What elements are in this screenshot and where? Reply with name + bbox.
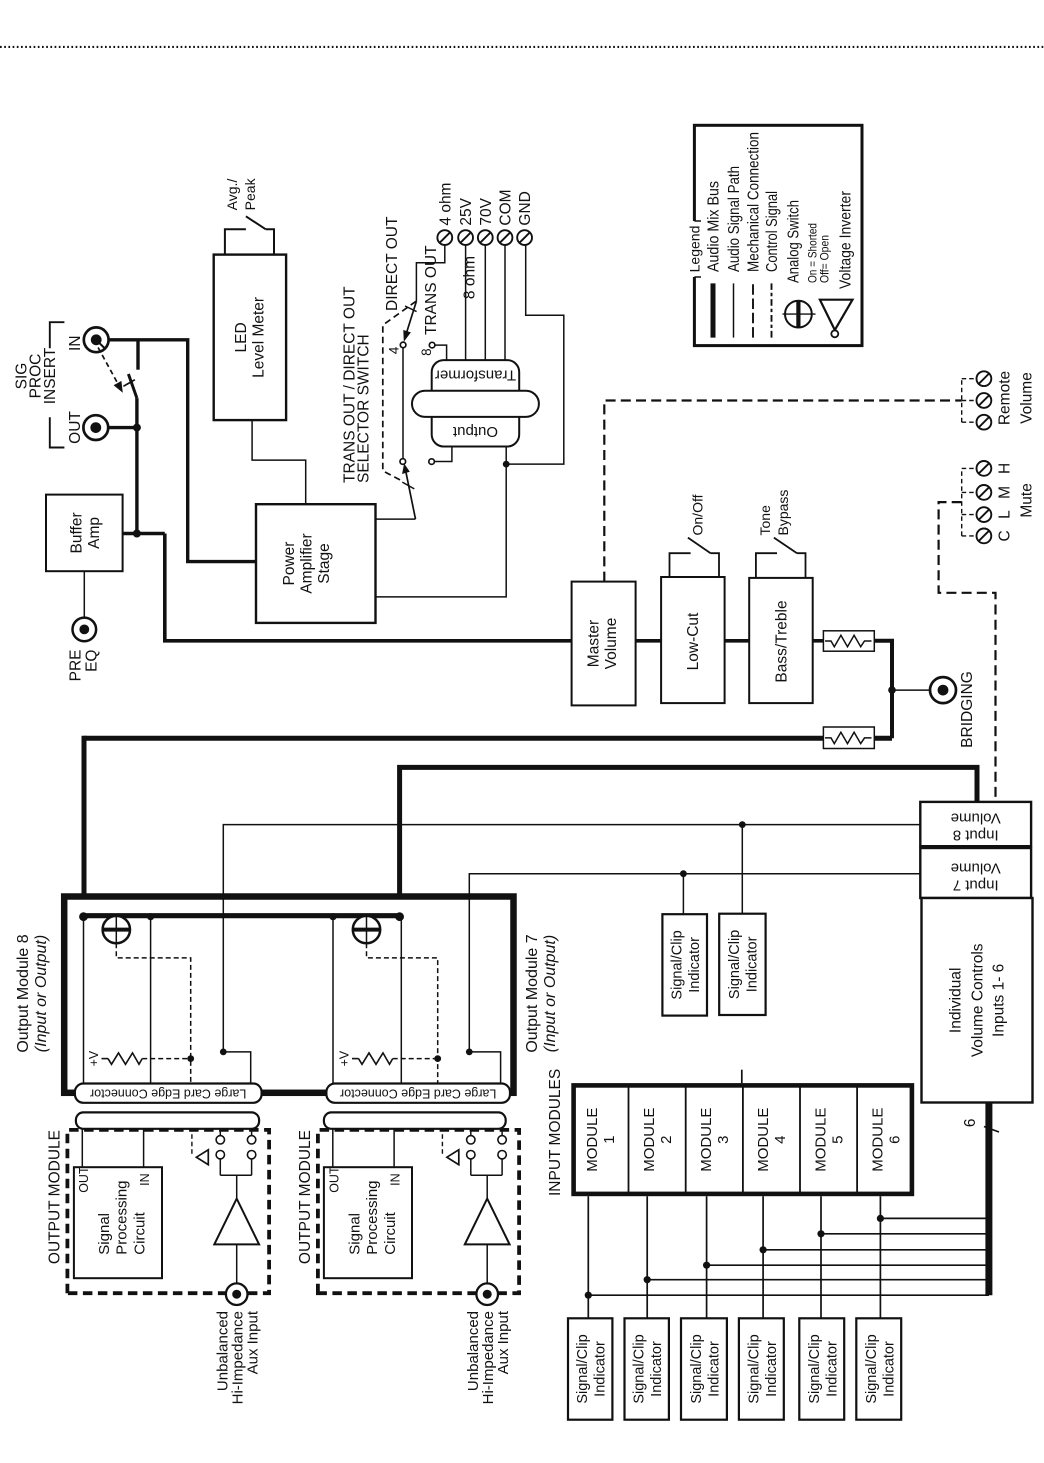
svg-text:Avg./: Avg./	[224, 179, 240, 211]
avg/peak switch arm	[246, 216, 266, 229]
wire amp to jumper bracket module 8	[236, 1175, 238, 1198]
dotted separator rule at top of page	[0, 46, 1044, 48]
wire 70V terminal	[484, 245, 486, 360]
svg-text:Low-Cut: Low-Cut	[685, 612, 702, 670]
svg-text:Signal/Clip: Signal/Clip	[727, 930, 743, 999]
svg-text:Indicator: Indicator	[824, 1341, 840, 1397]
terminal mute C	[977, 529, 992, 544]
legend sample audio signal path	[733, 283, 735, 337]
svg-text:Remote: Remote	[997, 371, 1014, 425]
svg-text:Tone: Tone	[757, 505, 773, 536]
terminal 4 ohm	[437, 230, 452, 245]
wire chain R1 to corner	[871, 641, 892, 738]
svg-text:Input 8: Input 8	[953, 827, 999, 844]
svg-text:Transformer: Transformer	[435, 366, 516, 383]
svg-text:C: C	[997, 530, 1014, 541]
svg-text:Master: Master	[586, 620, 603, 667]
node branch 2	[644, 1276, 651, 1283]
svg-text:Individual: Individual	[948, 968, 965, 1034]
signal processing circuit box module 8	[74, 1167, 162, 1278]
wire module 3 output	[706, 1196, 708, 1318]
wire ground return to GND terminal	[506, 245, 564, 464]
wire SPC IN to connector (module 8)	[143, 1129, 145, 1167]
svg-text:SELECTOR SWITCH: SELECTOR SWITCH	[356, 334, 373, 483]
wire module 8 line A	[83, 916, 85, 1084]
wire module 4 output	[762, 1196, 764, 1318]
signal/clip indicator box 1	[568, 1318, 612, 1419]
wire branch input 6	[880, 1217, 989, 1219]
control dashed master volume remote	[604, 401, 961, 582]
tone bypass switch leads	[756, 553, 777, 578]
wire branch input 3	[707, 1264, 989, 1266]
svg-text:GND: GND	[517, 191, 534, 225]
node bridging tap	[888, 686, 896, 694]
terminal mute H	[977, 461, 992, 476]
svg-text:Power: Power	[281, 542, 298, 586]
terminal remote volume M	[977, 393, 992, 408]
wire indicator 7 tap	[682, 874, 684, 915]
svg-text:Volume Controls: Volume Controls	[970, 943, 987, 1057]
svg-text:4: 4	[387, 346, 402, 354]
svg-text:TRANS OUT: TRANS OUT	[423, 245, 440, 335]
svg-text:Indicator: Indicator	[707, 1341, 723, 1397]
signal/clip indicator box input 7	[662, 914, 707, 1015]
terminal 70V	[478, 230, 493, 245]
tick across selector arm 4 ohm side	[405, 306, 417, 312]
svg-text:25V: 25V	[458, 197, 475, 225]
wire SPC OUT to connector (module 7)	[332, 1129, 334, 1167]
resistor R2 (summing)	[823, 727, 874, 749]
inverter dashed lead module 7	[441, 1129, 443, 1154]
svg-text:Buffer: Buffer	[69, 512, 86, 553]
individual volume controls box	[922, 898, 1033, 1103]
node branch 4	[760, 1246, 767, 1253]
voltage inverter module 7	[447, 1150, 459, 1165]
low-cut on/off switch leads	[670, 553, 691, 577]
contact selector upper-left	[400, 459, 406, 465]
wire internal mix bus	[82, 913, 401, 918]
svg-text:70V: 70V	[478, 197, 495, 225]
wire PRE EQ jack to buffer	[83, 571, 85, 617]
voltage inverter module 8	[196, 1150, 208, 1165]
wire module 8 input feed	[223, 825, 920, 1084]
terminal COM	[498, 230, 513, 245]
svg-text:Indicator: Indicator	[881, 1341, 897, 1397]
svg-text:Level Meter: Level Meter	[251, 297, 268, 378]
svg-text:Amplifier: Amplifier	[299, 533, 316, 593]
svg-text:4 ohm: 4 ohm	[437, 183, 454, 226]
svg-text:MODULE: MODULE	[641, 1108, 658, 1172]
selector arm (4 ohm side)	[405, 301, 416, 337]
svg-text:Output Module 7: Output Module 7	[524, 934, 541, 1052]
legend analog switch symbol	[783, 301, 816, 328]
terminal 25V	[458, 230, 473, 245]
contact selector trans-out	[429, 342, 435, 348]
node module 7 line A junction	[329, 913, 336, 920]
node module 8 feed corner	[220, 1049, 227, 1056]
svg-text:MODULE: MODULE	[584, 1108, 601, 1172]
buffer amp box	[46, 495, 123, 572]
wire module 7 input feed	[469, 874, 920, 1084]
svg-text:5: 5	[829, 1136, 846, 1144]
svg-text:IN: IN	[67, 335, 84, 351]
svg-text:OUTPUT MODULE: OUTPUT MODULE	[46, 1130, 63, 1264]
avg/peak switch leads	[225, 229, 246, 254]
insert switch arm	[128, 374, 137, 398]
svg-text:Processing: Processing	[364, 1180, 381, 1254]
svg-text:Large Card Edge Connector: Large Card Edge Connector	[340, 1087, 496, 1101]
terminal GND	[517, 230, 532, 245]
signal/clip indicator box input 8	[719, 914, 765, 1015]
arrowhead selector arm 4 ohm side	[403, 330, 411, 342]
svg-text:H: H	[997, 463, 1014, 474]
legend voltage inverter symbol	[820, 300, 853, 338]
svg-text:Input 7: Input 7	[953, 877, 999, 894]
wire module 6 output	[879, 1196, 881, 1318]
wire branch input 4	[763, 1249, 989, 1251]
LED level meter box	[214, 255, 286, 421]
svg-text:IN: IN	[138, 1173, 152, 1186]
node module 7 control junction	[434, 1055, 441, 1062]
svg-text:Mute: Mute	[1019, 483, 1036, 517]
wire to bridging jack	[892, 689, 930, 691]
wire amp to jumper bracket module 7	[486, 1175, 488, 1198]
svg-text:+V: +V	[87, 1050, 101, 1066]
selector switch dashed outline	[383, 300, 418, 480]
svg-text:INPUT MODULES: INPUT MODULES	[547, 1069, 564, 1196]
arrowhead of mechanical link	[114, 381, 123, 393]
svg-text:Bypass: Bypass	[775, 490, 791, 536]
node module 7 bus junction	[395, 912, 404, 921]
svg-text:Stage: Stage	[316, 543, 333, 584]
card edge connector module 7	[326, 1084, 510, 1103]
svg-text:Inputs 1- 6: Inputs 1- 6	[991, 964, 1008, 1037]
wire lower-left contact to transformer	[435, 447, 452, 462]
wire 25V terminal	[465, 245, 467, 360]
svg-text:Control Signal: Control Signal	[764, 191, 781, 272]
legend title ticks	[694, 276, 701, 278]
svg-text:OUT: OUT	[327, 1166, 341, 1193]
node module 8 bus junction	[79, 912, 88, 921]
svg-text:Signal/Clip: Signal/Clip	[689, 1334, 705, 1403]
svg-text:INSERT: INSERT	[42, 347, 59, 404]
svg-text:Volume: Volume	[603, 618, 620, 670]
svg-text:MODULE: MODULE	[812, 1108, 829, 1172]
module 7 card connector bar	[324, 1112, 506, 1128]
node input 7 indicator tap	[680, 870, 687, 877]
svg-text:Circuit: Circuit	[382, 1211, 399, 1254]
svg-text:DIRECT OUT: DIRECT OUT	[384, 216, 401, 311]
jack BRIDGING	[930, 677, 956, 703]
svg-text:4: 4	[772, 1136, 789, 1144]
wire module 2 output	[646, 1196, 648, 1318]
input modules box (thick)	[574, 1085, 912, 1194]
jack aux input module 8	[226, 1283, 248, 1305]
node module 7 feed corner	[466, 1049, 473, 1056]
svg-text:Audio Signal Path: Audio Signal Path	[726, 166, 743, 272]
wire mix bus (main vertical)	[871, 736, 892, 741]
svg-text:Bass/Treble: Bass/Treble	[774, 600, 791, 682]
svg-text:OUTPUT MODULE: OUTPUT MODULE	[297, 1130, 314, 1264]
terminal remote volume H	[977, 371, 992, 386]
bracket tick (IN side)	[50, 322, 65, 348]
svg-text:Off= Open: Off= Open	[818, 235, 832, 283]
contact selector lower-left	[429, 459, 435, 465]
wire IN jack to bus corner	[109, 340, 256, 562]
node branch 5	[817, 1230, 824, 1237]
signal/clip indicator box 3	[681, 1318, 727, 1419]
svg-text:Volume: Volume	[1019, 372, 1036, 424]
node OUT junction	[133, 424, 141, 432]
svg-text:MODULE: MODULE	[698, 1108, 715, 1172]
power amplifier stage box	[256, 504, 376, 623]
tone bypass switch arm	[774, 538, 797, 554]
control dashed module 8 switch	[116, 943, 190, 1083]
jumper pins module 8	[216, 1129, 256, 1176]
svg-text:Audio Mix Bus: Audio Mix Bus	[706, 181, 723, 272]
wire chain bass/treble to resistor R1	[813, 639, 827, 643]
svg-text:Large Card Edge Connector: Large Card Edge Connector	[90, 1087, 246, 1101]
resistor R1 (summing)	[823, 631, 874, 651]
tick across insert switch arm	[123, 380, 134, 387]
node branch 6	[877, 1215, 884, 1222]
svg-text:Indicator: Indicator	[649, 1341, 665, 1397]
wire OUT jack to switch	[108, 426, 137, 429]
svg-text:8 ohm: 8 ohm	[461, 256, 478, 299]
svg-text:6: 6	[962, 1118, 979, 1127]
wire chain master volume to low-cut	[636, 639, 662, 643]
node branch 1	[585, 1292, 592, 1299]
inverter dashed lead module 8	[191, 1129, 193, 1154]
svg-text:Peak: Peak	[242, 177, 258, 210]
amplifier module 7	[465, 1199, 510, 1245]
wire LED meter to power amp	[252, 420, 306, 504]
wire branch input 2	[647, 1279, 989, 1281]
wire module 7 line A	[332, 916, 334, 1084]
svg-text:Signal/Clip: Signal/Clip	[669, 930, 685, 999]
svg-text:Circuit: Circuit	[132, 1211, 149, 1254]
signal/clip indicator box 5	[799, 1318, 844, 1419]
control dashed module 7 switch	[367, 943, 438, 1083]
wire DIRECT OUT from 4 ohm terminal	[416, 245, 444, 301]
svg-text:6: 6	[887, 1136, 904, 1144]
wire module 7 line B	[400, 916, 402, 1084]
terminal mute M	[977, 485, 992, 500]
wire aux jack to amp module 8	[236, 1244, 238, 1283]
svg-text:3: 3	[715, 1136, 732, 1144]
wire branch input 5	[821, 1233, 989, 1235]
svg-text:Aux Input: Aux Input	[245, 1310, 262, 1374]
low-cut on/off switch arm	[688, 538, 711, 554]
svg-text:IN: IN	[389, 1173, 403, 1186]
wire mix bus 2 (modules 7/8 output)	[400, 767, 977, 918]
wire to master volume chain	[165, 534, 572, 641]
node input 8 indicator tap	[739, 821, 746, 828]
label SIG PROC INSERT	[13, 347, 58, 404]
wire direct-out selector link	[402, 348, 404, 459]
legend box	[694, 125, 862, 345]
low-cut box	[661, 577, 725, 703]
mute dashed bracket	[962, 468, 977, 536]
svg-text:Voltage Inverter: Voltage Inverter	[837, 191, 854, 289]
svg-text:Signal/Clip: Signal/Clip	[632, 1334, 648, 1403]
svg-text:1: 1	[601, 1136, 618, 1144]
svg-text:Processing: Processing	[114, 1180, 131, 1254]
wire aux jack to amp module 7	[486, 1244, 488, 1283]
jumper pins module 7	[467, 1129, 507, 1176]
tick 6-channel slash	[984, 1127, 999, 1133]
wire trans-out contact to transformer	[435, 345, 447, 360]
input 8 volume box	[920, 802, 1031, 846]
svg-text:(Input or Output): (Input or Output)	[33, 935, 50, 1052]
svg-text:PRE: PRE	[68, 650, 85, 682]
wire OUT run to buffer branch	[135, 398, 138, 533]
jack IN	[84, 327, 109, 352]
tick across selector arm power side	[402, 482, 414, 489]
control dashed mute path	[939, 502, 996, 798]
output module 8 card dashed box	[67, 1130, 269, 1293]
svg-text:Volume: Volume	[951, 860, 1001, 877]
output transformer core bar	[412, 391, 539, 417]
analog switch module 7	[353, 916, 380, 944]
node module 8 line B junction	[147, 913, 154, 920]
svg-text:Signal: Signal	[347, 1213, 364, 1255]
svg-text:Indicator: Indicator	[745, 936, 761, 992]
svg-text:COM: COM	[498, 189, 515, 225]
svg-text:L: L	[997, 510, 1014, 519]
resistor module 8 pull-up	[102, 1053, 191, 1064]
signal processing circuit box module 7	[324, 1167, 412, 1278]
terminal mute L	[977, 507, 992, 522]
wire mix bus top run to module 8	[82, 736, 87, 919]
legend sample control signal	[771, 283, 773, 337]
arrowhead selector arm power side	[402, 464, 410, 475]
bracket tick (OUT side)	[50, 417, 65, 447]
svg-text:+V: +V	[338, 1050, 352, 1066]
svg-text:Signal/Clip: Signal/Clip	[807, 1334, 823, 1403]
module 8 card connector bar	[76, 1112, 259, 1128]
svg-text:On/Off: On/Off	[690, 494, 706, 535]
module dividers	[629, 1085, 858, 1194]
wire module 8 line B	[150, 916, 152, 1084]
node output2/ground junction	[503, 461, 510, 468]
svg-text:Aux Input: Aux Input	[495, 1310, 512, 1374]
svg-text:(Input or Output): (Input or Output)	[542, 935, 559, 1052]
wire power amp output 2	[376, 447, 507, 597]
output modules housing box (thick)	[64, 897, 513, 1093]
wire branch input 1	[588, 1294, 989, 1296]
legend sample mechanical connection	[752, 283, 754, 337]
insert switch mechanical dashed link	[98, 348, 120, 388]
output module 7 card dashed box	[318, 1130, 519, 1293]
svg-text:Signal/Clip: Signal/Clip	[746, 1334, 762, 1403]
terminal remote volume L	[977, 415, 992, 430]
svg-text:Legend: Legend	[686, 226, 702, 273]
selector arm (power side)	[405, 466, 416, 520]
wire SPC IN to connector (module 7)	[393, 1129, 395, 1167]
legend sample audio mix bus	[711, 283, 716, 337]
wire buffer amp link	[123, 532, 165, 535]
node branch 3	[703, 1262, 710, 1269]
svg-text:Analog Switch: Analog Switch	[786, 200, 803, 283]
signal/clip indicator box 6	[856, 1318, 901, 1419]
bass/treble box	[749, 578, 813, 703]
wire chain low-cut to bass/treble	[725, 639, 750, 643]
input 7 volume box	[920, 848, 1031, 898]
svg-text:Signal/Clip: Signal/Clip	[575, 1334, 591, 1403]
svg-text:Amp: Amp	[86, 517, 103, 549]
jack OUT	[83, 415, 108, 440]
jack aux input module 7	[476, 1283, 498, 1305]
svg-text:Output Module 8: Output Module 8	[15, 934, 32, 1052]
wire stub module divider to indicator 8	[741, 1070, 743, 1084]
wire input bus (thick)	[985, 1103, 992, 1296]
node module 8 control junction	[187, 1055, 194, 1062]
wire module 1 output	[587, 1196, 589, 1318]
wire insert switch stub (IN side)	[136, 340, 139, 370]
wire SPC OUT to connector (module 8)	[81, 1129, 83, 1167]
remote volume dashed bracket	[962, 378, 977, 422]
resistor module 7 pull-up	[352, 1053, 438, 1064]
master volume box	[572, 582, 636, 706]
analog switch module 8	[103, 916, 130, 944]
svg-text:M: M	[997, 486, 1014, 499]
node buffer junction	[133, 530, 141, 538]
svg-text:8: 8	[419, 348, 434, 356]
signal/clip indicator box 2	[625, 1318, 669, 1419]
svg-text:Output: Output	[452, 423, 498, 440]
jack PRE EQ	[73, 618, 97, 642]
wire module 5 output	[820, 1196, 822, 1318]
svg-text:BRIDGING: BRIDGING	[959, 671, 976, 748]
wire COM terminal	[504, 245, 506, 360]
wire indicator 8 tap	[741, 825, 743, 914]
svg-text:Indicator: Indicator	[764, 1341, 780, 1397]
output transformer body	[432, 360, 520, 446]
signal/clip indicator box 4	[739, 1318, 784, 1419]
svg-text:EQ: EQ	[84, 650, 101, 672]
svg-text:Signal: Signal	[96, 1213, 113, 1255]
svg-text:Volume: Volume	[951, 810, 1001, 827]
svg-text:Mechanical Connection: Mechanical Connection	[746, 132, 763, 272]
svg-text:2: 2	[658, 1136, 675, 1144]
svg-text:OUT: OUT	[77, 1166, 91, 1193]
card edge connector module 8	[75, 1084, 262, 1103]
svg-text:Signal/Clip: Signal/Clip	[864, 1334, 880, 1403]
svg-text:LED: LED	[233, 322, 250, 352]
svg-text:Indicator: Indicator	[593, 1341, 609, 1397]
svg-text:Indicator: Indicator	[687, 937, 703, 993]
wire power amp output 1	[376, 518, 416, 520]
svg-text:OUT: OUT	[67, 411, 84, 444]
svg-text:MODULE: MODULE	[755, 1108, 772, 1172]
contact selector upper-right	[400, 342, 406, 348]
amplifier module 8	[214, 1199, 259, 1245]
svg-text:MODULE: MODULE	[870, 1108, 887, 1172]
